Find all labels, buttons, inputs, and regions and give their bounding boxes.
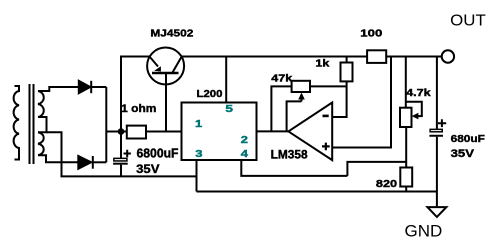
- wire secondary top terminal to diode D1 anode: [38, 87, 79, 91]
- svg-text:47k: 47k: [271, 73, 293, 84]
- potentiometer R5 4.7k: [400, 108, 412, 127]
- wire raw positive rail to L200 pin 1: [106, 131, 181, 133]
- transformer T1 core: [30, 84, 34, 164]
- wire secondary bottom terminal to diode D2 anode: [38, 155, 78, 162]
- svg-text:6800uF: 6800uF: [137, 146, 179, 160]
- transformer T1 secondary bottom winding: [38, 132, 44, 155]
- wire L200 pin 5 to output rail: [225, 57, 227, 103]
- wire base of Q1 to pin 1 net: [165, 73, 167, 132]
- resistor R2 100: [367, 50, 386, 63]
- svg-text:100: 100: [360, 29, 383, 40]
- svg-text:1: 1: [195, 119, 203, 130]
- transistor Q1 MJ4502: [147, 48, 184, 85]
- svg-text:MJ4502: MJ4502: [150, 28, 193, 40]
- wire non-inverting input to OUT node: [332, 57, 391, 148]
- wire bottom ground rail: [197, 191, 437, 193]
- svg-text:35V: 35V: [451, 148, 475, 160]
- wire L200 pin 3 to ground rail: [196, 160, 198, 192]
- wire 1k top to output rail: [346, 57, 348, 63]
- svg-text:1 ohm: 1 ohm: [121, 103, 156, 115]
- capacitor C2 680uF: [429, 57, 446, 207]
- terminal OUT: [442, 50, 454, 62]
- wire L200 pin 2 to op-amp output: [257, 130, 289, 132]
- minus input mark: [323, 115, 329, 118]
- wire 820 bottom to ground rail: [405, 187, 407, 192]
- IC U1 L200: [182, 103, 257, 161]
- svg-text:5: 5: [225, 104, 233, 115]
- wire joining rectifier outputs: [105, 87, 107, 162]
- svg-text:OUT: OUT: [450, 13, 486, 30]
- transformer T1 primary winding: [14, 86, 19, 160]
- wire 4.7k top to OUT node: [405, 57, 407, 108]
- svg-text:4: 4: [241, 149, 249, 160]
- svg-text:820: 820: [376, 179, 398, 190]
- wire 47k right terminal: [310, 85, 347, 87]
- wire L200 pin 4 feedback to divider: [241, 160, 406, 176]
- diode D2: [78, 156, 93, 169]
- svg-text:LM358: LM358: [271, 149, 309, 161]
- svg-text:2: 2: [241, 135, 249, 146]
- svg-text:35V: 35V: [136, 162, 159, 176]
- plus input mark: [322, 143, 330, 151]
- wire 1k bottom to inverting input: [332, 81, 346, 117]
- wire 47k left terminal to pin2 net: [271, 86, 291, 131]
- junction node raw supply: [118, 128, 125, 135]
- resistor R1 1 ohm: [127, 126, 146, 139]
- resistor R3 1k: [341, 63, 353, 82]
- wire emitter branch: [121, 57, 150, 132]
- svg-text:680uF: 680uF: [451, 133, 486, 145]
- wire top output rail: [182, 56, 442, 58]
- diode D1: [79, 81, 91, 93]
- svg-text:L200: L200: [197, 88, 223, 100]
- wiper of 47k: [287, 93, 305, 132]
- wiper of 4.7k: [406, 102, 422, 120]
- wire center tap to ground rail: [47, 132, 197, 176]
- svg-text:3: 3: [195, 149, 203, 160]
- svg-text:1k: 1k: [315, 59, 329, 70]
- op-amp U2 LM358: [288, 103, 332, 161]
- ground symbol: [427, 207, 446, 217]
- potentiometer R4 47k: [292, 81, 310, 92]
- wire 4.7k bottom to 820 top: [405, 127, 407, 168]
- svg-text:GND: GND: [405, 222, 443, 241]
- wire diode D2 cathode to positive node: [93, 161, 107, 163]
- transformer T1 secondary top winding: [38, 91, 44, 117]
- resistor R6 820: [400, 168, 412, 187]
- wire diode D1 cathode to positive node: [91, 86, 106, 88]
- wire center-tap bracket: [38, 117, 47, 132]
- capacitor C1 6800uF: [113, 132, 131, 177]
- svg-text:4.7k: 4.7k: [406, 88, 431, 99]
